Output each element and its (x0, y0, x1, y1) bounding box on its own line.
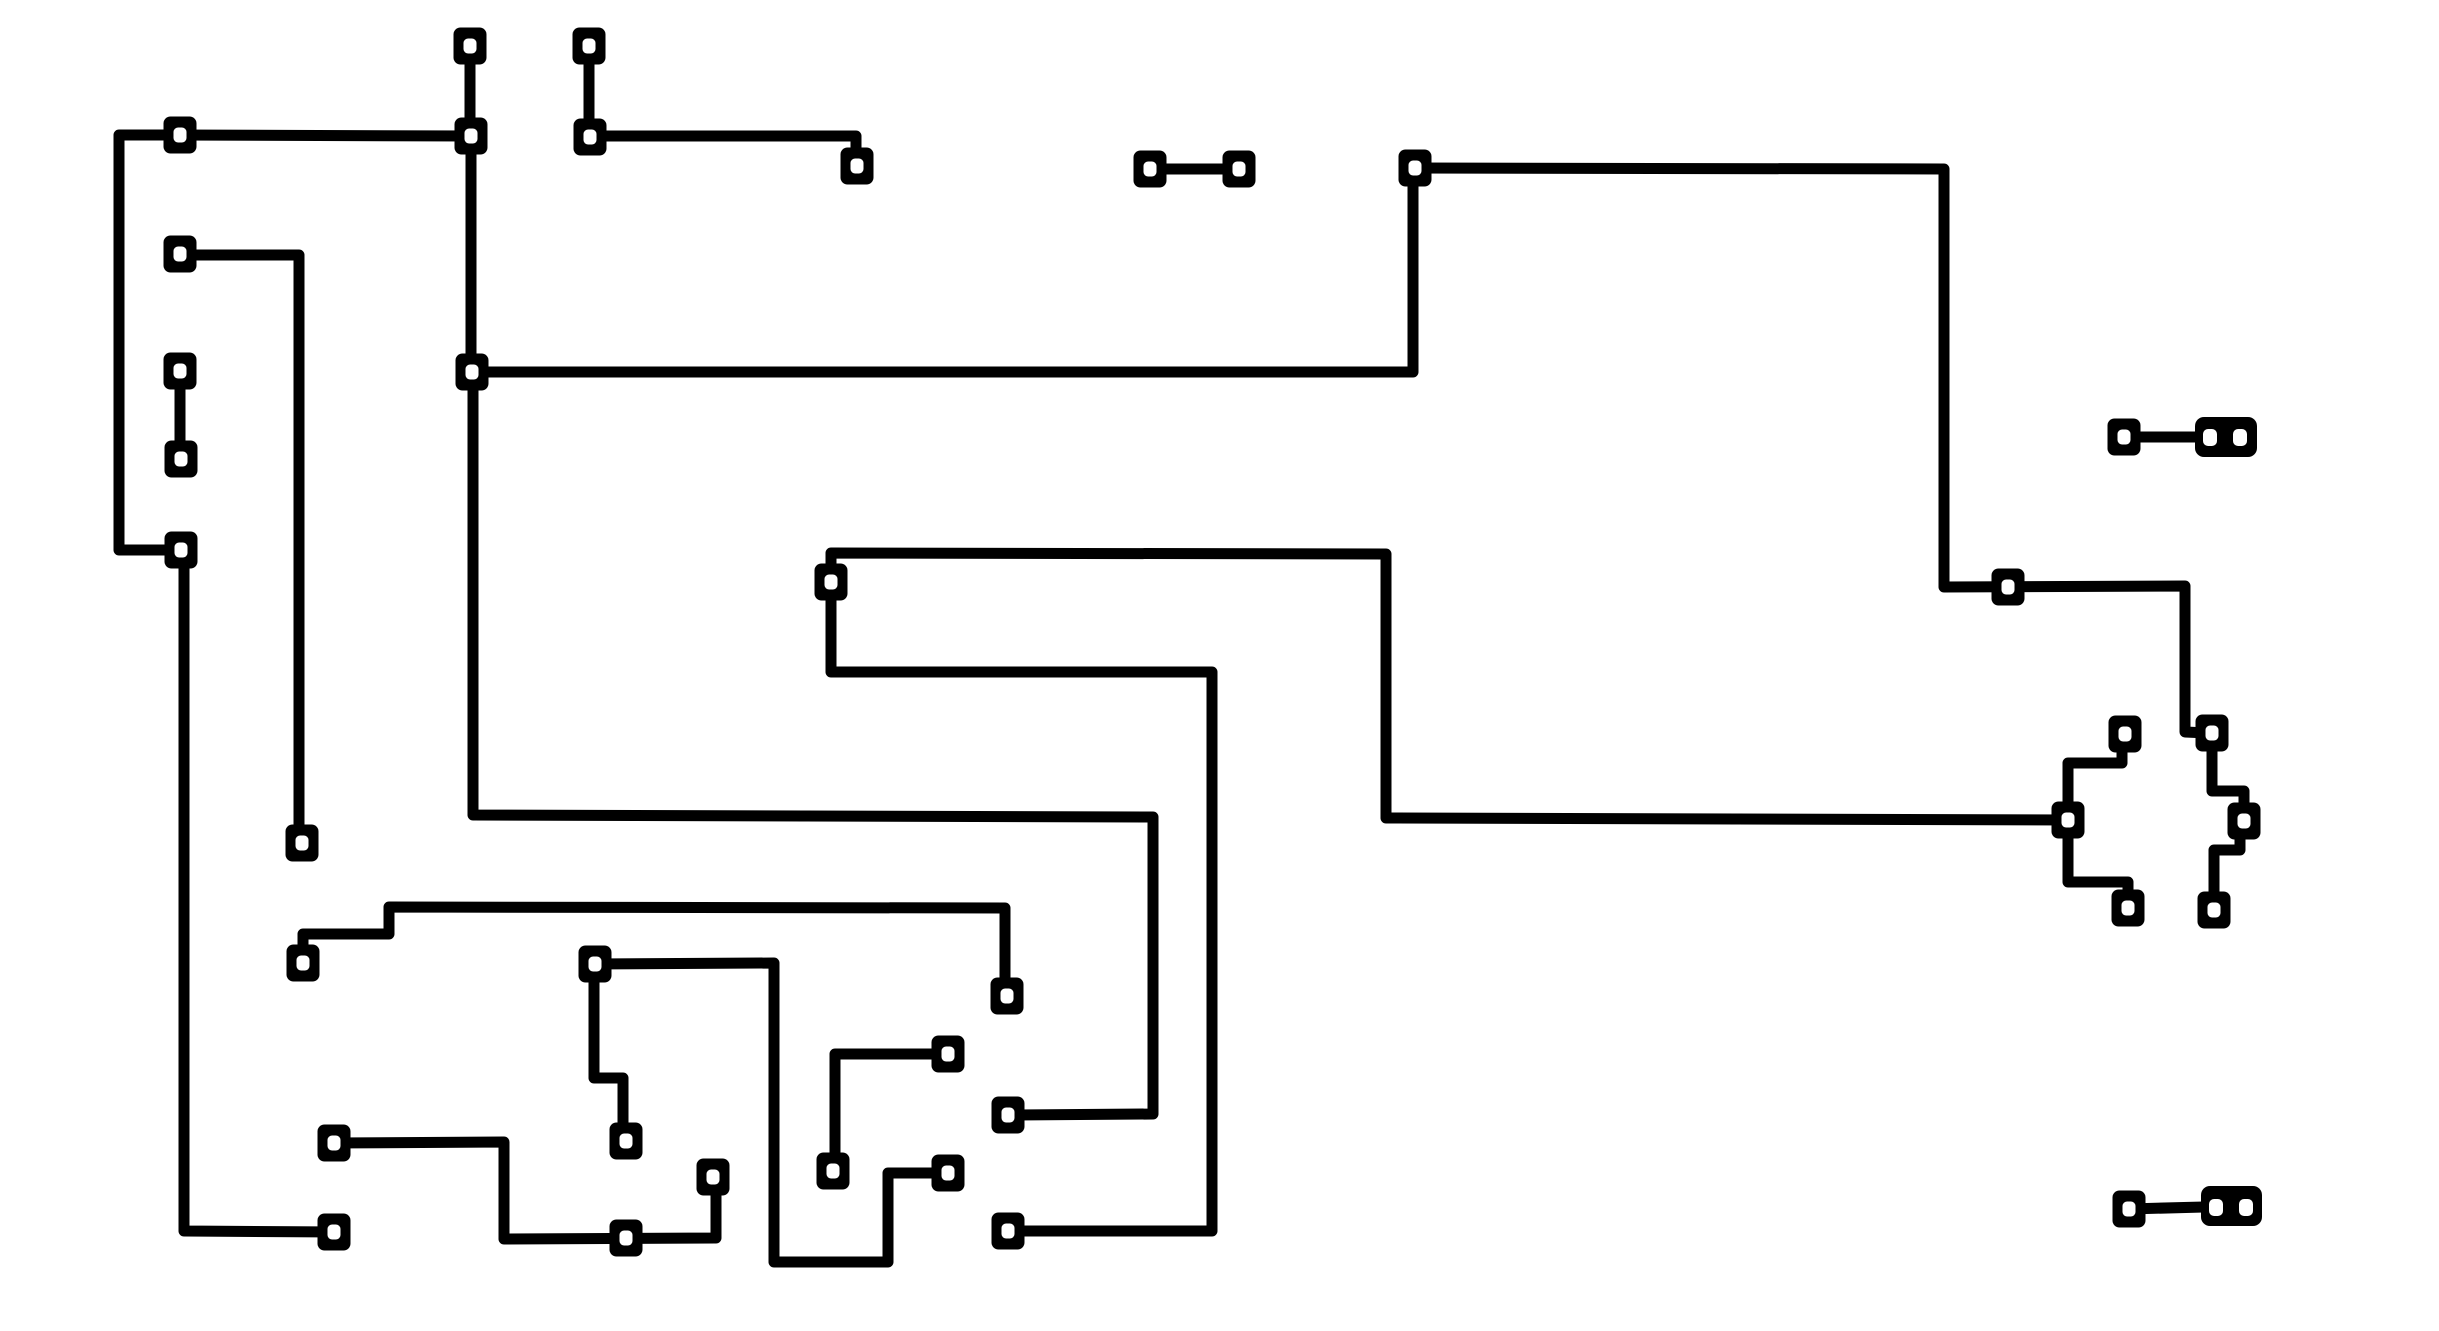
wire Q down to S (594, 964, 623, 1141)
pad G2 (286, 825, 319, 862)
wire P1 to P2 (2068, 734, 2122, 820)
wire P1 to P3 (2068, 820, 2128, 908)
wire T right down through U up to V (334, 1142, 716, 1239)
wire K up right down to P1 (831, 553, 2068, 820)
wire bottom-right pair (2129, 1207, 2203, 1209)
wire J right up to E1 (472, 168, 1413, 372)
pad O (287, 945, 320, 982)
pad C1 (164, 117, 197, 154)
wire B1 down to J (466, 136, 477, 372)
pad R (932, 1155, 965, 1192)
pad bottom-right single (2113, 1191, 2146, 1228)
wire X left down to W (835, 1054, 948, 1171)
pad U (610, 1220, 643, 1257)
pad P6 (2198, 892, 2231, 929)
wire D1-D2 (1150, 164, 1239, 175)
wire O up right down to Y (303, 907, 1005, 996)
wire H1-H2 (175, 371, 186, 459)
wire A1-B1 (465, 46, 476, 136)
pad Y (991, 978, 1024, 1015)
pad A1 (454, 28, 487, 65)
wire G1 to G2 (180, 255, 299, 843)
wire B2 to C2 (590, 136, 856, 162)
pad H1 (164, 353, 197, 390)
wire C1 left-down to F (119, 135, 181, 550)
pad bottom-right double (2201, 1186, 2262, 1226)
pad G1 (164, 236, 197, 273)
pad J (456, 354, 489, 391)
pad P4 (2196, 715, 2229, 752)
pad X (932, 1036, 965, 1073)
pad W (817, 1153, 850, 1190)
pad Q (579, 946, 612, 983)
pad F (165, 532, 198, 569)
pad V (697, 1159, 730, 1196)
pad D2 (1223, 151, 1256, 188)
pad S (610, 1123, 643, 1160)
pad C2 (841, 148, 874, 185)
pad F1 (1992, 569, 2025, 606)
pad B1 (455, 118, 488, 155)
pad K (815, 564, 848, 601)
pad H2 (165, 441, 198, 478)
pad B2 (574, 119, 607, 156)
wire K down right down to AA (831, 582, 1212, 1231)
pad P2 (2109, 716, 2142, 753)
wire A2-B2 (584, 46, 595, 137)
wire P5 to P6 (2214, 821, 2240, 910)
pad E1 (1399, 150, 1432, 187)
wire F down to Pc (184, 550, 334, 1232)
pad P5 (2228, 803, 2261, 840)
pad P1 (2052, 802, 2085, 839)
pad top-right single (2108, 419, 2141, 456)
pad P3 (2112, 890, 2145, 927)
pad A2 (573, 28, 606, 65)
pad AA (992, 1213, 1025, 1250)
wire J down right to Z (473, 372, 1153, 1115)
pad T (318, 1125, 351, 1162)
wire top-right pair (2124, 432, 2195, 443)
wire E1 right down through F1 to P4 (1415, 168, 2208, 733)
pad D1 (1134, 151, 1167, 188)
wire B1-C1 (180, 135, 471, 136)
wire P4 to P5 (2212, 733, 2244, 821)
pad Pc (318, 1214, 351, 1251)
pad Z (992, 1097, 1025, 1134)
wire Q right down to R (595, 963, 948, 1262)
pad top-right double (2195, 417, 2257, 457)
